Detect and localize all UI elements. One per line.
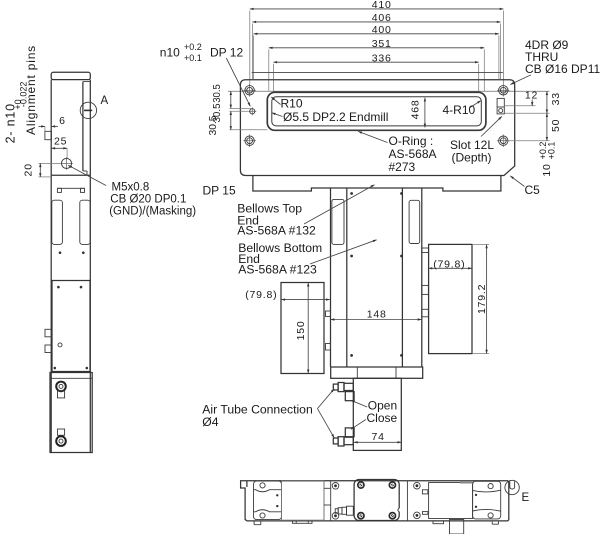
svg-text:CB Ø16 DP11: CB Ø16 DP11: [525, 62, 600, 76]
svg-text:30.5: 30.5: [212, 84, 223, 103]
svg-text:33: 33: [550, 92, 562, 105]
svg-text:12: 12: [525, 90, 538, 102]
svg-text:AS-568A #123: AS-568A #123: [238, 263, 317, 277]
svg-text:4-R10: 4-R10: [443, 103, 476, 117]
svg-text:179.2: 179.2: [476, 284, 488, 314]
svg-text:6: 6: [59, 115, 66, 127]
svg-text:468: 468: [409, 99, 421, 119]
svg-text:AS-568A: AS-568A: [389, 147, 437, 161]
svg-text:O-Ring :: O-Ring :: [389, 134, 434, 148]
svg-text:#273: #273: [389, 160, 416, 174]
svg-text:10: 10: [541, 163, 553, 176]
svg-text:25: 25: [54, 135, 67, 147]
svg-text:(Depth): (Depth): [452, 150, 492, 164]
svg-text:Ø5.5 DP2.2 Endmill: Ø5.5 DP2.2 Endmill: [283, 110, 388, 124]
svg-text:Close: Close: [367, 411, 398, 425]
svg-text:A: A: [101, 95, 109, 107]
svg-text:150: 150: [295, 320, 307, 340]
svg-text:+0.1: +0.1: [184, 53, 202, 63]
svg-text:(GND)/(Masking): (GND)/(Masking): [109, 206, 196, 218]
svg-text:50: 50: [550, 119, 562, 132]
svg-text:C5: C5: [525, 183, 541, 197]
svg-text:406: 406: [372, 12, 392, 24]
svg-text:148: 148: [367, 308, 387, 320]
svg-text:30.5: 30.5: [208, 115, 219, 135]
svg-text:(79.8): (79.8): [245, 289, 277, 301]
svg-text:+0.1: +0.1: [546, 142, 556, 160]
svg-text:20: 20: [23, 163, 35, 176]
svg-text:DP 12: DP 12: [210, 46, 243, 60]
svg-text:CB Ø20 DP0.1: CB Ø20 DP0.1: [110, 194, 186, 206]
svg-text:351: 351: [372, 38, 392, 50]
svg-text:M5x0.8: M5x0.8: [112, 181, 150, 193]
svg-text:n10: n10: [160, 46, 180, 60]
svg-text:(79.8): (79.8): [433, 258, 465, 270]
svg-text:+0.2: +0.2: [184, 42, 202, 52]
svg-text:336: 336: [372, 52, 392, 64]
svg-text:Air Tube Connection: Air Tube Connection: [202, 403, 312, 417]
svg-text:AS-568A #132: AS-568A #132: [237, 224, 316, 238]
svg-text:400: 400: [372, 24, 392, 36]
svg-text:Ø4: Ø4: [202, 415, 218, 429]
svg-text:74: 74: [372, 431, 385, 443]
svg-text:DP 15: DP 15: [203, 184, 236, 198]
svg-text:E: E: [522, 492, 530, 504]
svg-text:410: 410: [372, 0, 392, 11]
svg-text:Alignment pins: Alignment pins: [24, 45, 38, 135]
svg-text:R10: R10: [281, 97, 303, 111]
